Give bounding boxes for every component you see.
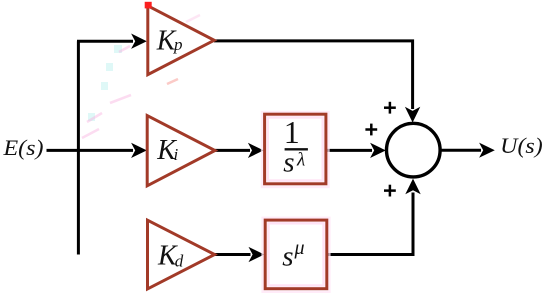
arrowhead to U(s) [479, 143, 495, 158]
amplifier triangle Kd [148, 220, 215, 289]
svg-text:μ: μ [294, 237, 305, 259]
wire vertical bus [77, 41, 80, 254]
arrowhead down into summer [405, 107, 420, 123]
arrowhead into integrator block [248, 143, 264, 158]
plus sign bottom [384, 185, 396, 197]
derivative block s^mu [263, 218, 330, 292]
svg-text:E(s): E(s) [2, 135, 43, 160]
amplifier triangle Ki [147, 116, 215, 186]
arrowhead into derivative block [249, 247, 265, 262]
arrowhead into summer left [370, 143, 386, 158]
plus sign top [384, 102, 396, 114]
wire top branch to Kp [77, 40, 133, 43]
svg-text:1: 1 [284, 114, 300, 150]
svg-text:d: d [175, 251, 184, 270]
wire Ki output to integrator block [215, 149, 250, 152]
svg-text:U(s): U(s) [500, 133, 543, 158]
wire Kp output to summing point [214, 41, 413, 109]
wire E(s) to Ki [47, 149, 134, 152]
red vertex handle dot [145, 2, 152, 9]
arrowhead into Ki [131, 143, 147, 158]
svg-text:i: i [174, 145, 179, 164]
arrowhead up into summer [405, 179, 420, 195]
wire summer to U(s) [441, 149, 481, 152]
amplifier triangle Kp [148, 6, 214, 75]
svg-text:s: s [282, 240, 293, 272]
wire Kd output to derivative block [215, 253, 251, 256]
wire integrator block to summer [327, 149, 373, 152]
svg-text:p: p [173, 35, 183, 54]
summing junction circle [387, 123, 441, 177]
svg-text:s: s [283, 146, 294, 178]
plus sign left [365, 124, 377, 136]
svg-text:λ: λ [296, 150, 305, 171]
jpeg artifact marks [82, 15, 200, 138]
integrator block 1/s^lambda [262, 112, 329, 187]
wire derivative block to summer [328, 193, 414, 255]
arrowhead into Kp [131, 34, 147, 49]
